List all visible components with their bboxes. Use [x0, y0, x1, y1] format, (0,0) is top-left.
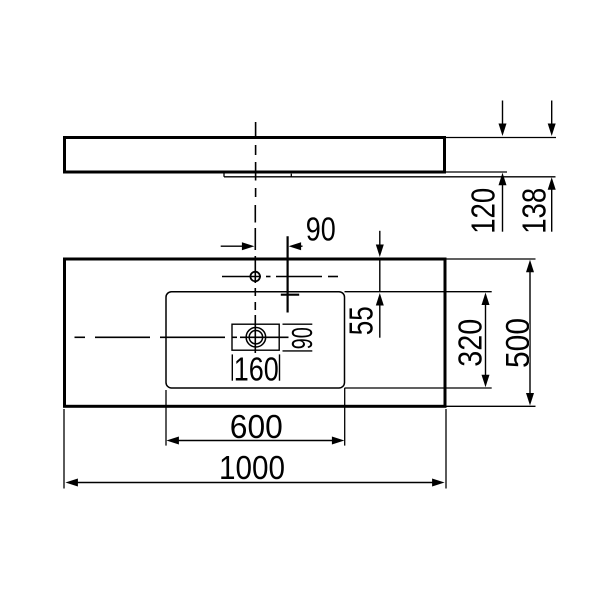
dimension 500 — [499, 260, 536, 406]
drain outer circle — [246, 327, 266, 347]
svg-text:55: 55 — [343, 306, 380, 335]
svg-text:320: 320 — [452, 319, 489, 367]
side view vertical centerline — [255, 122, 257, 197]
bowl right extension down — [344, 388, 346, 446]
bottom ledge line — [224, 176, 556, 178]
svg-text:120: 120 — [465, 188, 502, 234]
horizontal centerline (plan) — [75, 336, 289, 338]
main vertical centerline (plan) — [254, 205, 256, 353]
dimension 160 — [232, 351, 279, 388]
bottom edge extension — [446, 171, 507, 173]
dimension 1000 — [65, 449, 444, 487]
basin body side view — [65, 138, 445, 173]
svg-text:1000: 1000 — [219, 449, 285, 486]
faucet hole — [250, 272, 260, 282]
basin top extension — [447, 258, 536, 260]
svg-text:90: 90 — [306, 211, 336, 248]
inner bowl — [166, 292, 345, 388]
basin right extension down — [445, 409, 447, 489]
dimension 138 — [516, 101, 556, 234]
svg-text:500: 500 — [499, 318, 536, 368]
basin bottom extension — [447, 405, 536, 407]
svg-text:600: 600 — [230, 408, 283, 445]
basin left extension down — [63, 409, 65, 489]
optional tap hole cross — [281, 236, 299, 312]
ledge stub left — [223, 172, 225, 177]
drain inner circle — [249, 331, 262, 344]
dimension 600 — [166, 408, 344, 445]
bowl top extension — [345, 291, 492, 293]
svg-text:138: 138 — [516, 188, 553, 234]
svg-text:90: 90 — [287, 327, 319, 349]
basin outer rectangle — [65, 259, 446, 406]
dimension 90 (drain, rotated) — [283, 324, 320, 351]
ledge stub mid — [290, 174, 292, 177]
drain rectangle — [232, 324, 279, 350]
faucet horizontal centerline — [222, 276, 338, 278]
dimension 320 — [452, 293, 490, 388]
top edge extension — [446, 137, 556, 139]
svg-text:160: 160 — [234, 351, 279, 388]
bowl bottom extension — [345, 387, 492, 389]
dimension 55 — [343, 231, 384, 338]
dimension 90 (top) — [221, 211, 336, 251]
dimension 120 — [465, 101, 507, 234]
bowl left extension down — [165, 390, 167, 446]
